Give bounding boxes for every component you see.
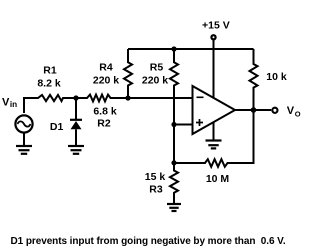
svg-text:15 k: 15 k xyxy=(145,171,166,183)
svg-text:O: O xyxy=(295,110,301,119)
svg-text:+15 V: +15 V xyxy=(202,20,230,32)
svg-text:R1: R1 xyxy=(43,65,57,77)
svg-text:220 k: 220 k xyxy=(93,75,119,87)
svg-text:10 k: 10 k xyxy=(266,71,287,83)
svg-text:D1 prevents input from going n: D1 prevents input from going negative by… xyxy=(11,236,286,247)
svg-text:in: in xyxy=(10,100,17,109)
svg-text:R4: R4 xyxy=(99,62,113,74)
svg-text:V: V xyxy=(2,97,10,109)
svg-text:V: V xyxy=(287,105,295,117)
svg-text:R3: R3 xyxy=(149,184,163,196)
svg-text:220 k: 220 k xyxy=(142,75,168,87)
svg-text:D1: D1 xyxy=(50,121,64,133)
svg-text:10 M: 10 M xyxy=(206,173,230,185)
svg-text:8.2 k: 8.2 k xyxy=(37,78,61,90)
svg-text:R5: R5 xyxy=(150,62,164,74)
svg-text:R2: R2 xyxy=(97,118,111,130)
svg-text:6.8 k: 6.8 k xyxy=(93,106,117,118)
